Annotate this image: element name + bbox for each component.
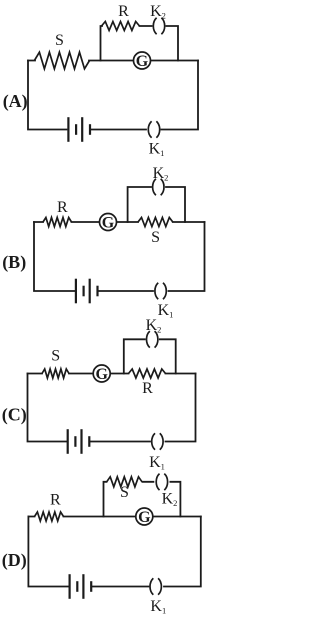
wire B outer loop xyxy=(34,222,205,291)
wire A main horizontal xyxy=(28,60,198,62)
svg-text:G: G xyxy=(95,366,108,383)
key K1 of D xyxy=(150,578,161,595)
circuit (D) label xyxy=(2,550,27,571)
svg-text:S: S xyxy=(151,229,160,246)
svg-text:R: R xyxy=(57,199,68,216)
svg-text:(C): (C) xyxy=(2,405,27,426)
label S of B xyxy=(151,229,160,246)
svg-text:S: S xyxy=(51,348,60,365)
wire A branch verticals and top xyxy=(101,26,179,61)
key K1 of B xyxy=(155,283,166,299)
label K2 of A xyxy=(150,3,166,21)
label K2 of B xyxy=(153,165,169,183)
wire D branch verticals and top xyxy=(104,482,181,517)
svg-text:(A): (A) xyxy=(3,91,28,112)
label S of A xyxy=(55,32,64,49)
key K1 of C xyxy=(152,433,163,450)
label S of C xyxy=(51,348,60,365)
galvanometer G of D xyxy=(136,508,153,526)
key K2 of C xyxy=(147,331,158,348)
resistor S of D xyxy=(107,477,142,487)
galvanometer G of B xyxy=(100,214,117,232)
key K2 of B xyxy=(153,179,164,195)
svg-text:G: G xyxy=(136,53,149,70)
wire C outer loop xyxy=(28,374,196,442)
galvanometer G of C xyxy=(93,365,110,383)
key K2 of A xyxy=(153,18,164,34)
wire A left/bottom/right outer loop xyxy=(28,61,198,130)
label S of D xyxy=(120,484,129,501)
label R of D xyxy=(50,492,61,509)
label K1 of C xyxy=(149,454,165,472)
wire B main horizontal xyxy=(34,221,205,223)
svg-text:R: R xyxy=(50,492,61,509)
resistor R of A xyxy=(102,22,140,31)
circuit (C) label xyxy=(2,405,27,426)
svg-text:R: R xyxy=(118,3,129,20)
label K1 of D xyxy=(150,598,166,616)
galvanometer G of A xyxy=(134,52,151,70)
svg-text:(B): (B) xyxy=(2,252,26,273)
resistor R of C xyxy=(129,369,166,378)
label R of C xyxy=(142,380,153,397)
label R of B xyxy=(57,199,68,216)
label K2 of C xyxy=(146,317,162,335)
circuit (A) label xyxy=(3,91,28,112)
wire C main horizontal xyxy=(28,373,196,375)
label K2 of D xyxy=(162,491,178,509)
resistor S of A xyxy=(34,52,89,69)
resistor S of B xyxy=(138,218,173,227)
resistor R of D xyxy=(35,512,64,521)
label K1 of A xyxy=(149,141,165,159)
svg-text:G: G xyxy=(102,214,115,231)
svg-text:(D): (D) xyxy=(2,550,27,571)
battery C xyxy=(68,429,90,454)
battery B xyxy=(76,279,98,304)
label K1 of B xyxy=(158,302,174,320)
circuit (B) label xyxy=(2,252,26,273)
battery D xyxy=(70,574,92,599)
svg-text:G: G xyxy=(138,509,151,526)
resistor R of B xyxy=(43,218,72,227)
key K1 of A xyxy=(148,121,159,138)
svg-text:S: S xyxy=(120,484,129,501)
wire C branch verticals and top xyxy=(124,339,176,373)
label R of A xyxy=(118,3,129,20)
battery A xyxy=(68,117,90,142)
wire D main horizontal xyxy=(28,516,200,518)
key K2 of D xyxy=(156,474,167,491)
svg-text:S: S xyxy=(55,32,64,49)
wire D outer loop xyxy=(28,517,200,587)
resistor S of C xyxy=(42,369,69,378)
wire B branch verticals and top xyxy=(128,187,185,222)
svg-text:R: R xyxy=(142,380,153,397)
